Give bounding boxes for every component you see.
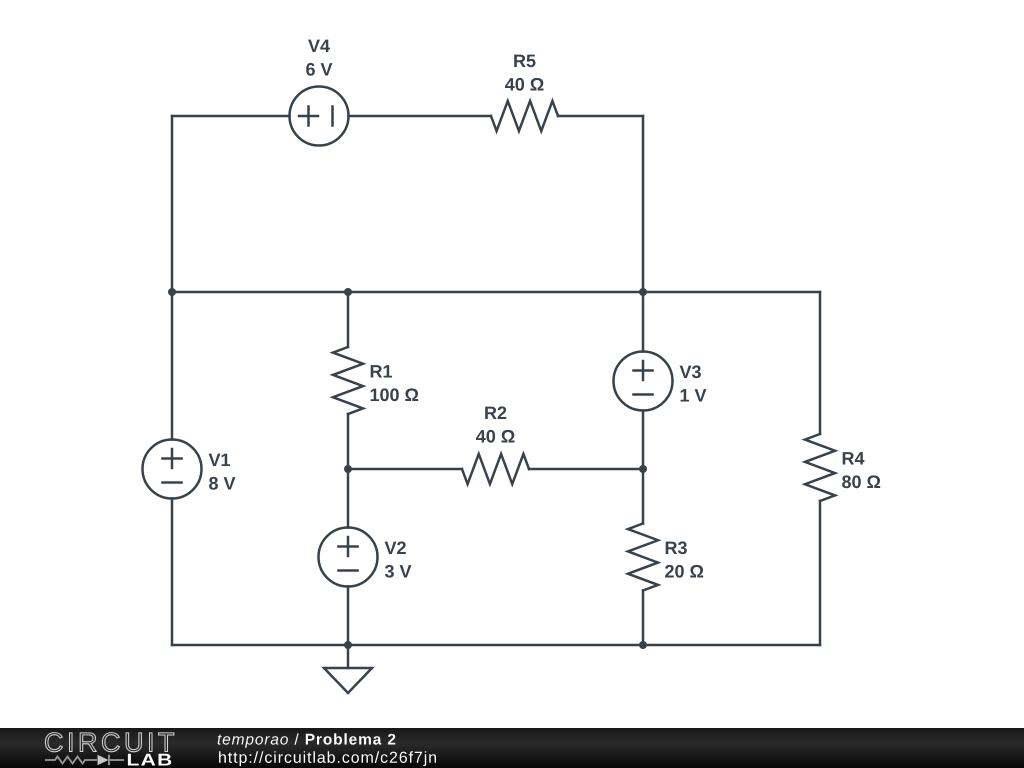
label R3 name <box>666 541 687 554</box>
voltage source V4 <box>290 87 349 146</box>
label V3 name <box>680 365 701 378</box>
node junction bus-V3 (643,292) <box>639 288 647 296</box>
wire top horizontal right segment (558,116)-(643,116) <box>558 115 643 118</box>
label R1 value 100 Ω <box>371 388 419 401</box>
label R2 value 40 Ω <box>476 430 515 443</box>
wire V3 upper lead (643,292)-(643,351.5) <box>642 292 645 352</box>
wire V1 branch lower lead (172,498.5)-(172,645) <box>171 499 174 646</box>
label R4 name <box>843 452 865 464</box>
node junction bottom-ground (348,645) <box>344 641 352 649</box>
label R5 value 40 Ω <box>505 78 544 91</box>
voltage source V1 <box>143 440 202 499</box>
wire top horizontal middle segment (348.5,116)-(491,116) <box>349 115 492 118</box>
label V3 value 1 V <box>681 389 707 401</box>
wire right rail lower (820,501)-(820,645) <box>819 501 822 645</box>
resistor R5 <box>491 101 558 131</box>
label R3 value 20 Ω <box>665 565 703 578</box>
logo LAB wordmark <box>128 754 171 766</box>
wire top-right vertical (643,116)-(643,292) <box>642 116 645 292</box>
node junction bus-R1 (348,292) <box>344 288 352 296</box>
wire V3 lower lead (643,410.5)-(643,469) <box>642 411 645 470</box>
wire R1 upper lead (348,292)-(348,347) <box>347 292 350 347</box>
voltage source V2 <box>319 528 378 587</box>
wire V2 upper lead (348,469)-(348,527.5) <box>347 469 350 528</box>
resistor R3 <box>628 524 658 591</box>
wire bus horizontal (172,292)-(820,292) <box>172 291 820 294</box>
footer bar <box>0 728 1024 768</box>
wire V2 lower lead (348,586.5)-(348,645) <box>347 587 350 646</box>
wire bottom horizontal (172,645)-(820,645) <box>172 644 820 647</box>
node junction bus-left (172,292) <box>168 288 176 296</box>
wire top horizontal left segment (172,116)-(289.5,116) <box>172 115 290 118</box>
wire R1 lower lead (348,414)-(348,469) <box>347 414 350 469</box>
label V2 name <box>385 541 406 554</box>
logo CIRCUIT wordmark <box>45 733 174 752</box>
wire right rail upper (820,292)-(820,434) <box>819 292 822 434</box>
resistor R4 <box>805 434 835 501</box>
label V4 name <box>308 40 330 52</box>
voltage source V3 <box>614 352 673 411</box>
label R2 name <box>485 406 506 419</box>
node junction R1-R2-V2 (348,469) <box>344 465 352 473</box>
wire R2 left lead (348,469)-(462,469) <box>348 468 462 471</box>
ground <box>324 645 372 693</box>
label V1 value 8 V <box>209 477 235 490</box>
logo diode triangle <box>98 755 109 765</box>
footer url <box>219 751 436 766</box>
wire R3 lower lead (643,590.5)-(643,645) <box>642 591 645 646</box>
wire R2 right lead (529,469)-(643,469) <box>529 468 643 471</box>
resistor R1 <box>333 347 363 414</box>
wire V1 branch upper lead (172,292)-(172,439.5) <box>171 292 174 440</box>
node junction R2-V3-R3 (643,469) <box>639 465 647 473</box>
label V4 value 6 V <box>306 63 332 76</box>
label R5 name <box>514 55 535 68</box>
label V2 value 3 V <box>385 565 412 578</box>
logo resistor-diode squiggle <box>45 755 124 765</box>
resistor R2 <box>462 454 529 484</box>
wire top-left vertical (172,116)-(172,292) <box>171 116 174 292</box>
node junction bottom-R3 (643,645) <box>639 641 647 649</box>
footer title temporao / Problema 2 <box>218 733 396 747</box>
label R1 name <box>371 365 392 377</box>
label V1 name <box>209 454 230 466</box>
label R4 value 80 Ω <box>842 475 880 488</box>
wire R3 upper lead (643,469)-(643,523.5) <box>642 469 645 524</box>
